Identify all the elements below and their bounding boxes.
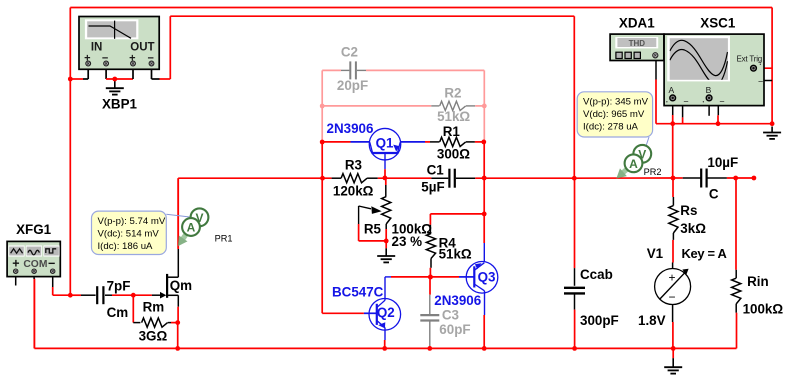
svg-text:XDA1: XDA1 <box>619 15 655 30</box>
svg-text:2N3906: 2N3906 <box>434 293 481 308</box>
svg-text:Rs: Rs <box>680 203 697 218</box>
svg-text:C2: C2 <box>341 45 358 60</box>
svg-text:3GΩ: 3GΩ <box>139 329 168 344</box>
svg-text:XBP1: XBP1 <box>102 96 138 111</box>
svg-text:A: A <box>187 221 196 235</box>
svg-text:Q3: Q3 <box>478 270 496 285</box>
svg-text:V(p-p): 345 mV: V(p-p): 345 mV <box>583 97 649 108</box>
svg-text:R2: R2 <box>444 85 461 100</box>
svg-text:1.8V: 1.8V <box>638 313 666 328</box>
svg-text:•: • <box>760 62 762 68</box>
svg-text:Q2: Q2 <box>377 305 395 320</box>
svg-text:Rin: Rin <box>747 274 769 289</box>
svg-text:Rm: Rm <box>143 300 165 315</box>
svg-text:5µF: 5µF <box>421 180 444 195</box>
svg-text:•: • <box>666 100 668 106</box>
svg-text:−: − <box>683 97 688 107</box>
svg-text:COM: COM <box>23 259 47 270</box>
svg-text:10µF: 10µF <box>707 155 738 170</box>
svg-text:PR1: PR1 <box>215 233 233 243</box>
svg-text:Cm: Cm <box>107 305 129 320</box>
svg-text:R3: R3 <box>345 158 362 173</box>
svg-text:2N3906: 2N3906 <box>327 121 374 136</box>
svg-text:I(dc): 186 uA: I(dc): 186 uA <box>98 241 154 252</box>
svg-text:20pF: 20pF <box>337 78 368 93</box>
svg-text:300pF: 300pF <box>580 313 619 328</box>
svg-text:C1: C1 <box>427 162 445 177</box>
svg-text:100kΩ: 100kΩ <box>743 302 784 317</box>
svg-text:Q1: Q1 <box>376 136 394 151</box>
svg-text:C: C <box>709 186 719 201</box>
svg-text:Ccab: Ccab <box>580 267 613 282</box>
svg-text:−: − <box>758 77 763 87</box>
svg-text:51kΩ: 51kΩ <box>437 109 470 124</box>
svg-text:120kΩ: 120kΩ <box>333 184 374 199</box>
svg-text:Key = A: Key = A <box>682 246 727 261</box>
svg-text:IN: IN <box>91 42 103 54</box>
svg-text:•: • <box>703 100 705 106</box>
svg-text:23 %: 23 % <box>392 234 423 249</box>
svg-text:−: − <box>668 290 675 304</box>
svg-text:300Ω: 300Ω <box>437 147 470 162</box>
svg-text:51kΩ: 51kΩ <box>439 247 472 262</box>
svg-text:BC547C: BC547C <box>332 285 384 300</box>
svg-text:THD: THD <box>629 39 646 48</box>
svg-text:3kΩ: 3kΩ <box>680 221 706 236</box>
svg-text:7pF: 7pF <box>107 279 131 294</box>
svg-text:V(p-p): 5.74 mV: V(p-p): 5.74 mV <box>98 216 166 227</box>
svg-text:+: + <box>668 271 675 285</box>
svg-text:XFG1: XFG1 <box>16 222 52 237</box>
svg-text:Ext Trig: Ext Trig <box>737 55 763 64</box>
svg-text:A: A <box>629 157 638 171</box>
svg-text:+: + <box>12 257 19 271</box>
svg-text:60pF: 60pF <box>439 322 470 337</box>
svg-text:V(dc): 965 mV: V(dc): 965 mV <box>583 109 645 120</box>
svg-text:V1: V1 <box>647 246 664 261</box>
svg-text:R5: R5 <box>364 221 382 236</box>
svg-text:A: A <box>668 85 674 95</box>
svg-text:XSC1: XSC1 <box>700 15 736 30</box>
svg-text:B: B <box>706 85 712 95</box>
svg-text:C3: C3 <box>442 307 459 322</box>
svg-text:V(dc): 514 mV: V(dc): 514 mV <box>98 229 160 240</box>
svg-text:−: − <box>719 97 724 107</box>
svg-text:R1: R1 <box>443 124 461 139</box>
svg-text:PR2: PR2 <box>644 167 662 177</box>
svg-text:Qm: Qm <box>170 278 192 293</box>
svg-text:−: − <box>48 256 55 270</box>
svg-text:I(dc): 278 uA: I(dc): 278 uA <box>583 121 639 132</box>
